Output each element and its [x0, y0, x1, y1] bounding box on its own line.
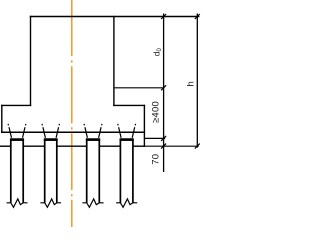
extension at underside level [144, 145, 198, 147]
cap underside segments [0, 145, 144, 147]
extension at mid level [114, 87, 164, 89]
dimension line V2 [196, 14, 198, 148]
pile 2 [40, 124, 61, 207]
break symbol [7, 199, 28, 207]
dimension ticks [161, 14, 200, 149]
cap right step horizontal [114, 104, 144, 106]
dimension line V1 [163, 14, 165, 173]
dimension extension lines [114, 14, 199, 173]
cap top edge + top dimension extension [31, 16, 199, 18]
cap bottom line [2, 131, 145, 133]
cap left outer edge [1, 105, 3, 132]
cap outline [2, 17, 199, 147]
pile 4 [116, 124, 137, 207]
svg-text:h: h [185, 81, 196, 86]
pile 3 [82, 124, 103, 207]
cap right lower edge [143, 105, 145, 146]
svg-text:70: 70 [150, 154, 161, 165]
axis centerline [71, 0, 73, 227]
cap left step horizontal [2, 104, 31, 106]
anchor bars [8, 124, 11, 138]
extension at pile top level [144, 137, 165, 139]
pile 1 [7, 124, 28, 207]
svg-text:≥400: ≥400 [150, 101, 161, 123]
cap left edge [30, 17, 32, 106]
cap right upper edge [113, 17, 115, 106]
